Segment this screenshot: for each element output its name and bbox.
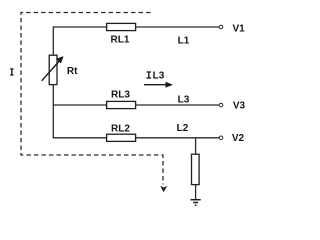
svg-text:RL2: RL2 <box>111 124 130 135</box>
svg-text:L2: L2 <box>177 123 189 134</box>
svg-text:L1: L1 <box>178 36 190 47</box>
svg-text:L3: L3 <box>153 71 165 82</box>
svg-text:V3: V3 <box>233 101 246 112</box>
svg-text:RL1: RL1 <box>111 35 130 46</box>
svg-text:L3: L3 <box>178 95 190 106</box>
svg-text:V1: V1 <box>232 23 245 34</box>
svg-text:V2: V2 <box>232 133 245 144</box>
svg-text:Rt: Rt <box>67 66 78 77</box>
svg-text:RL3: RL3 <box>111 90 130 101</box>
